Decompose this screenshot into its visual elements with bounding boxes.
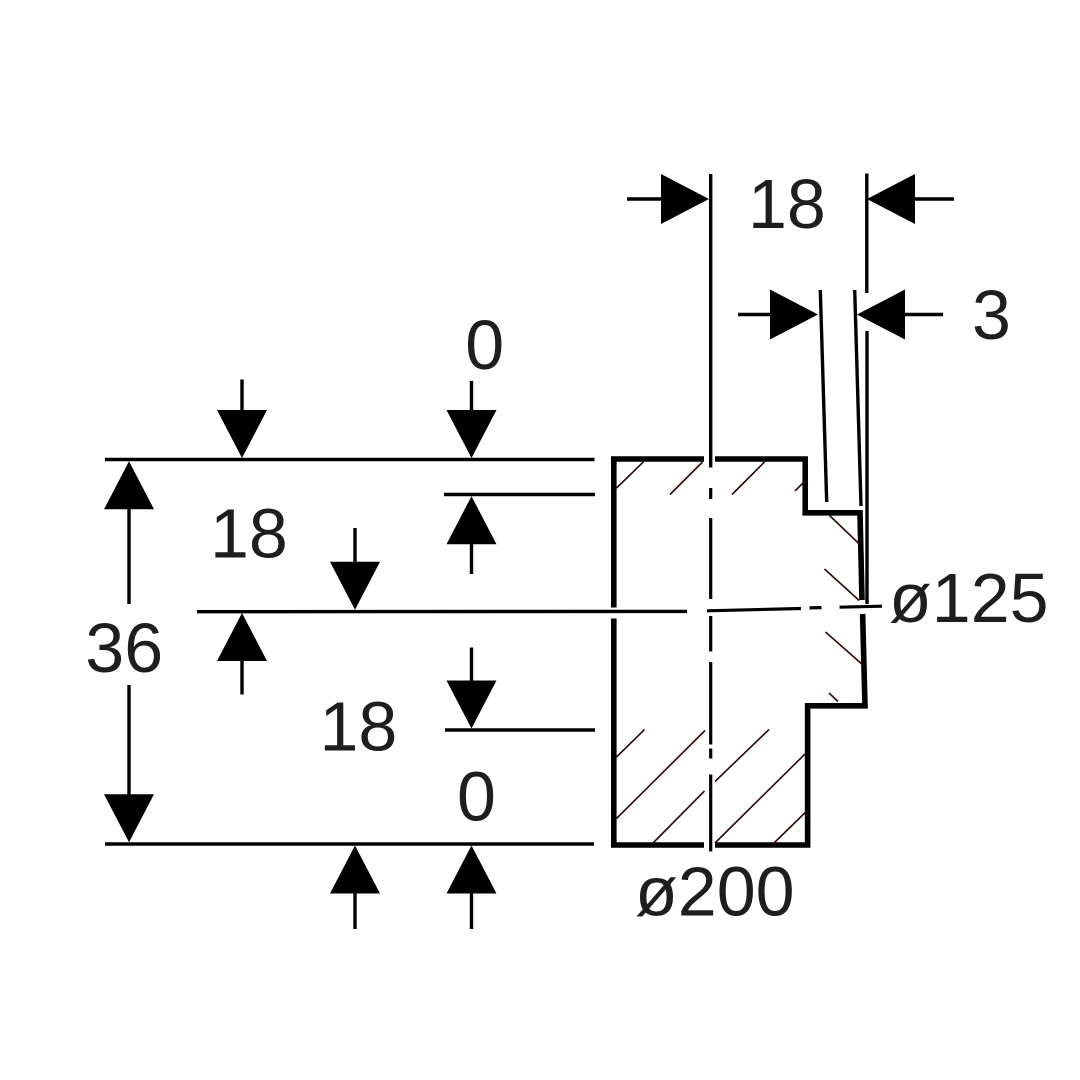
arrow down to top datum at x=471.5	[447, 381, 497, 458]
hatch lip 4	[829, 693, 838, 702]
svg-text:36: 36	[85, 609, 163, 687]
arrow right to x=709 for 18 dimension	[627, 174, 709, 224]
part outline lip lower and bottom step	[715, 614, 865, 845]
extension line x=866.3 below 3 dimension	[865, 331, 868, 604]
label 18 top dimension	[748, 165, 826, 243]
svg-text:ø125: ø125	[889, 559, 1049, 637]
hatch top band 4	[795, 482, 804, 491]
hatch lip 3	[826, 632, 864, 666]
dimension line bottom datum (36 level)	[105, 842, 594, 846]
dimension line lower 18 level	[445, 728, 595, 731]
svg-text:3: 3	[972, 276, 1011, 354]
arrow left to x=857 for 3 dimension	[857, 290, 943, 340]
hatch lip 2	[825, 569, 860, 601]
extension line lip outer for 3 dimension	[855, 290, 861, 506]
svg-text:18: 18	[748, 165, 826, 243]
arrow left to x=867 for 18 dimension	[867, 174, 954, 224]
label 36	[85, 609, 163, 687]
label o200	[635, 853, 795, 931]
hatch top band 3	[732, 462, 765, 495]
hatch bottom 4	[715, 730, 769, 782]
hatch top band 1	[617, 462, 644, 488]
extension line bore wall for 3 dimension	[820, 290, 826, 502]
label o125	[889, 559, 1049, 637]
part outline left edge lower	[611, 619, 617, 846]
label 18 lower left	[320, 688, 398, 766]
extension line right of 18 at x=866.8	[865, 174, 868, 294]
arrow right to x=818 for 3 dimension	[738, 290, 818, 340]
svg-text:0: 0	[457, 758, 496, 836]
dimension line top datum (0 level)	[105, 458, 595, 462]
part outline top edge right with step and lip upper	[715, 459, 862, 600]
arrow down to lower 18 level at x=471.5	[447, 648, 497, 729]
svg-text:18: 18	[320, 688, 398, 766]
arrow up to bottom datum at x=355	[330, 846, 380, 930]
svg-text:0: 0	[465, 306, 504, 384]
arrow down to top datum at x=242	[217, 380, 267, 459]
hatch bottom 3	[654, 791, 705, 843]
vertical centerline dash-dot through part at x=710.7	[709, 488, 712, 852]
hatch lip 1	[830, 516, 859, 544]
hatch top band 2	[670, 462, 703, 495]
hatch bottom 1	[617, 730, 645, 758]
part outline bottom edge left of centerline	[611, 842, 704, 848]
label 18 upper left	[210, 495, 288, 573]
arrow up to bottom datum at x=471.5	[447, 846, 497, 930]
arrow down to mid level at x=355	[330, 528, 380, 610]
part outline top edge left of centerline	[611, 456, 704, 462]
dimension line socket depth level	[444, 493, 595, 496]
extension line centerline top at x=710.7	[709, 174, 712, 468]
svg-text:18: 18	[210, 495, 288, 573]
dimension line mid level 18	[197, 610, 687, 614]
hatch bottom 5	[715, 754, 805, 843]
hatch bottom 6	[774, 812, 806, 844]
hatch bottom 2	[617, 731, 706, 819]
svg-text:ø200: ø200	[635, 853, 795, 931]
part outline left edge upper	[611, 459, 617, 608]
arrow up to socket depth line at x=471.5	[447, 496, 497, 574]
horizontal leader dash-dot to label o125	[707, 606, 882, 611]
arrow up to mid level at x=242	[217, 613, 267, 695]
vertical dimension 36 with arrows at x=129	[104, 461, 154, 842]
label 0 top	[465, 306, 504, 384]
label 3	[972, 276, 1011, 354]
label 0 bottom	[457, 758, 496, 836]
